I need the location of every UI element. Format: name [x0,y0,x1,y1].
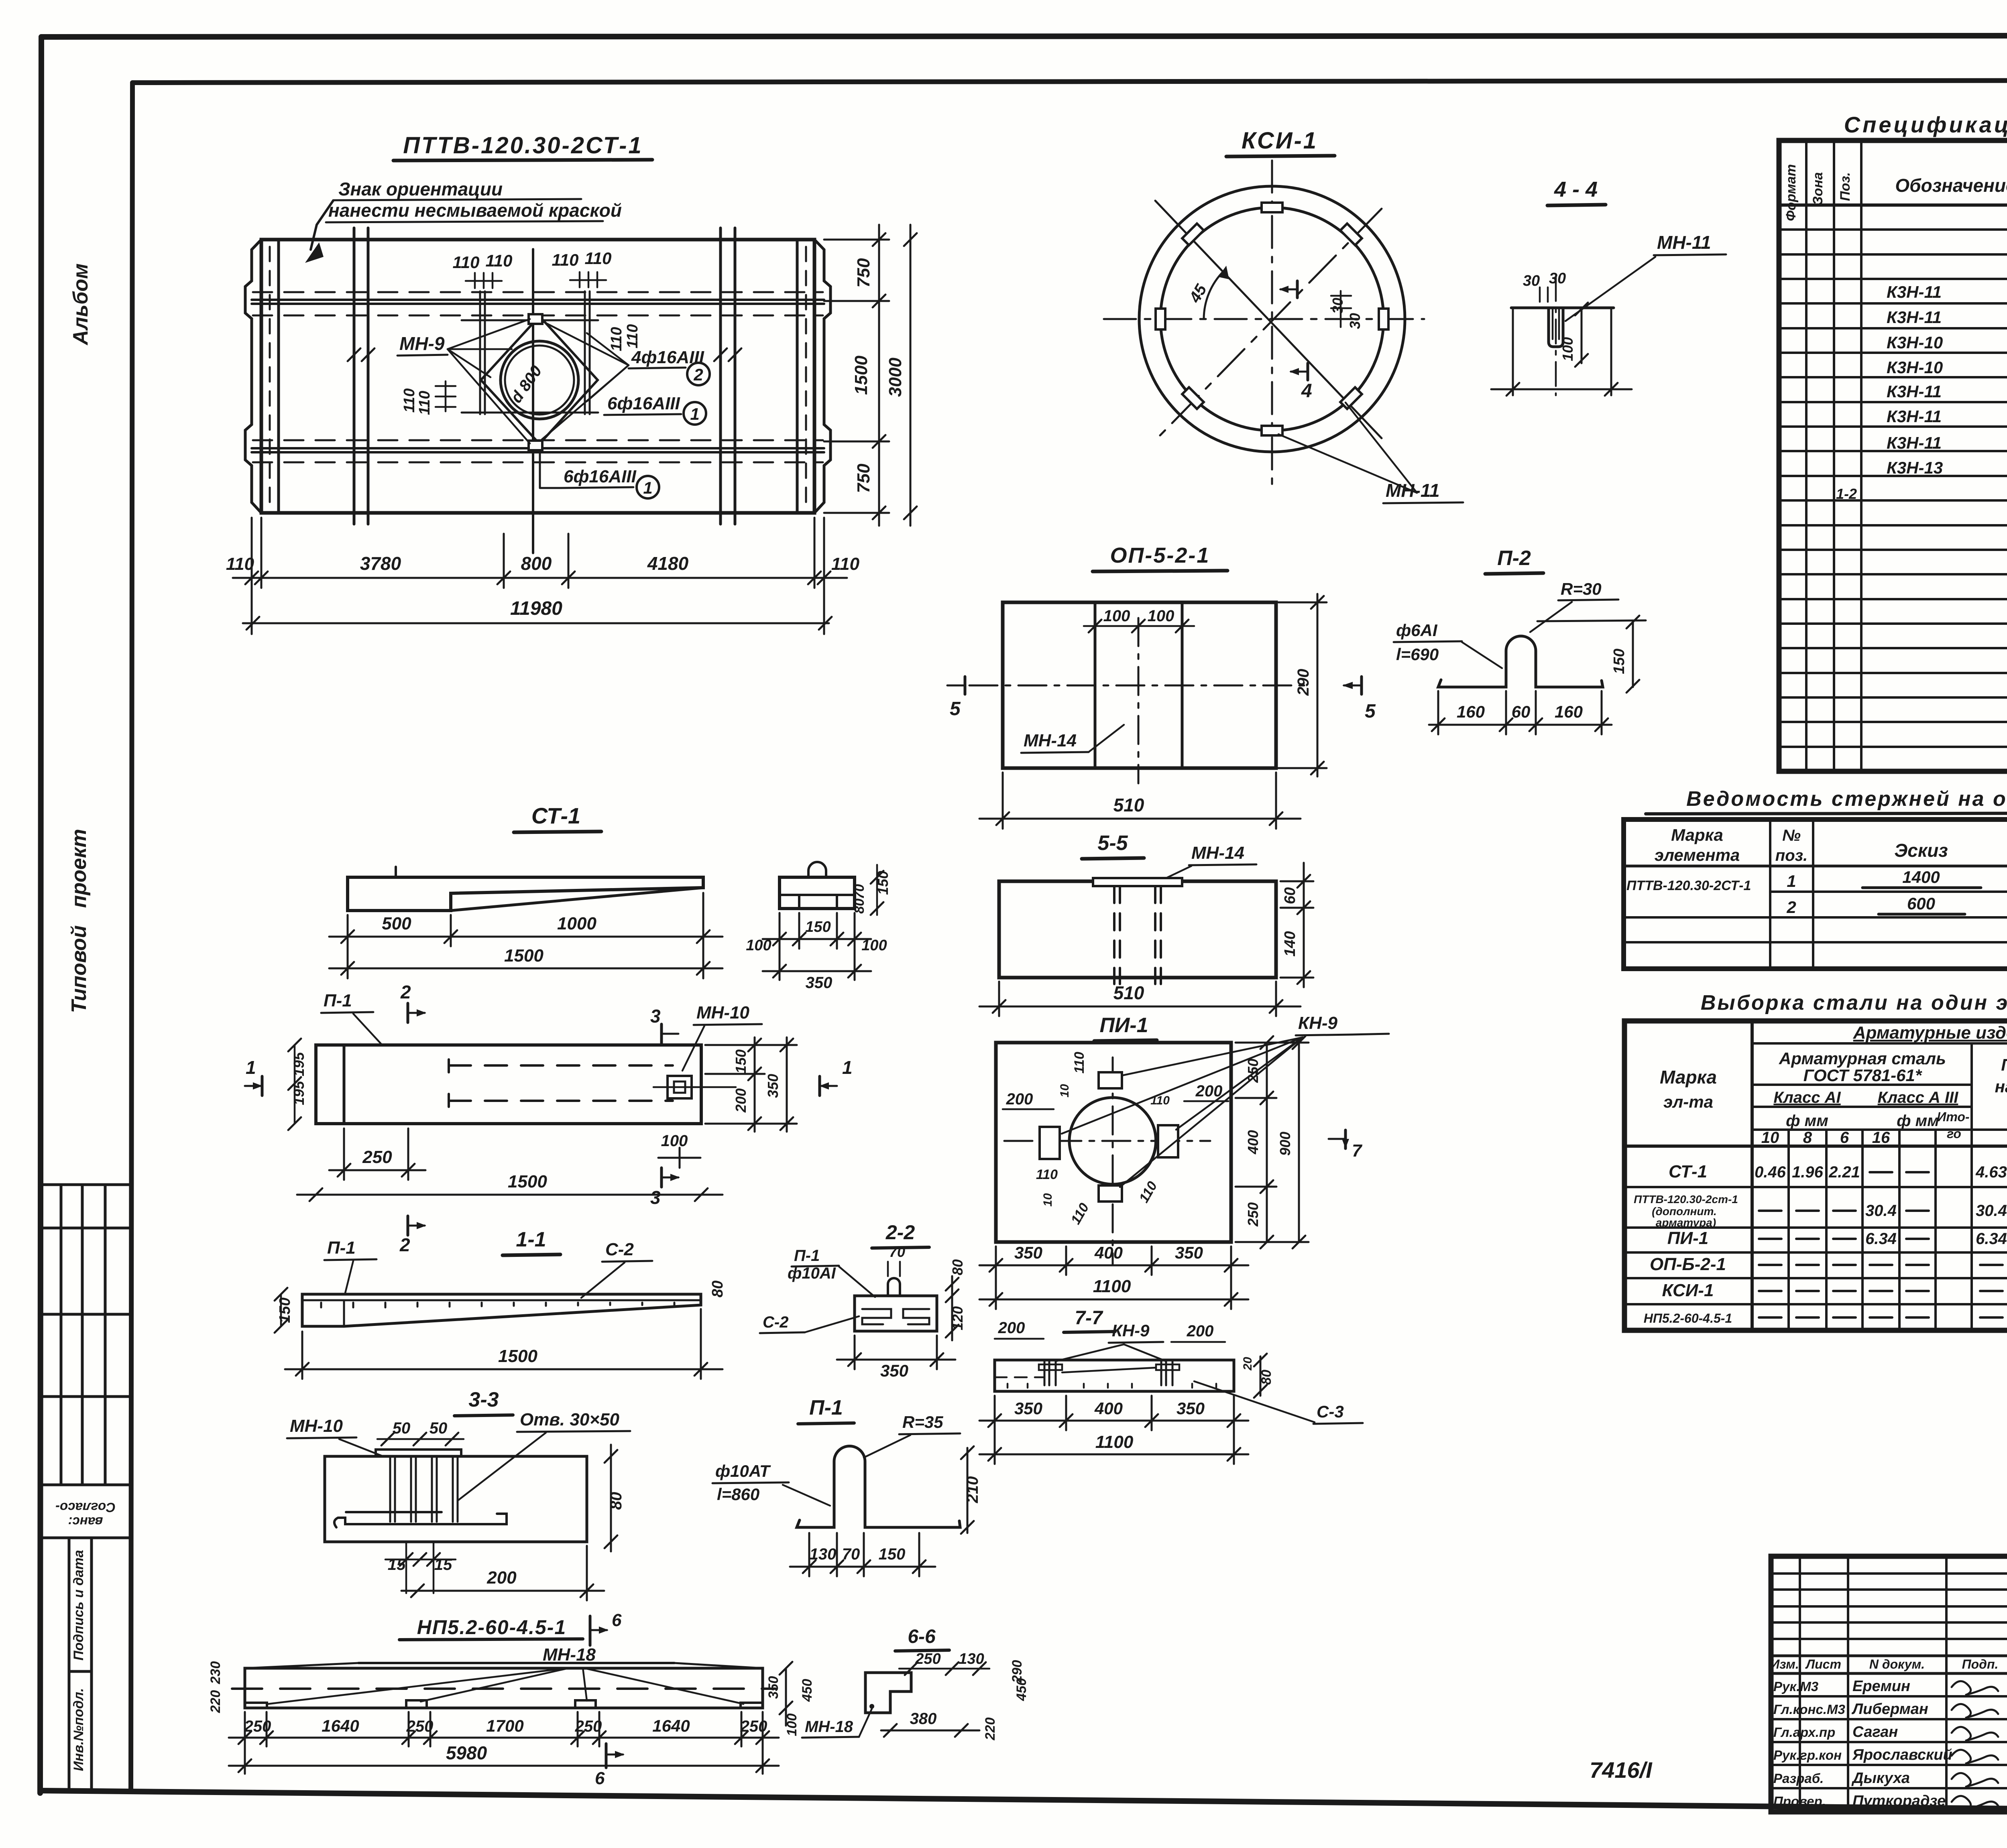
panel right vertical dim line 750 1500 750 [824,225,889,526]
svg-text:110: 110 [624,324,641,349]
svg-text:Класс АI: Класс АI [1773,1089,1841,1106]
svg-text:100: 100 [746,937,771,954]
П-2 hat profile [1438,636,1603,687]
svg-text:3-3: 3-3 [468,1388,499,1411]
КН-9 callout at 7-7 [1056,1321,1166,1361]
svg-text:5: 5 [1365,701,1376,722]
svg-text:КСИ-1: КСИ-1 [1662,1281,1714,1300]
svg-text:МН-14: МН-14 [1024,731,1077,750]
svg-text:СТ-1: СТ-1 [1669,1162,1707,1181]
svg-text:110: 110 [1068,1200,1092,1227]
svg-text:НП5.2-60-4.5-1: НП5.2-60-4.5-1 [417,1616,566,1639]
ОП bottom dim 510 [979,773,1301,829]
5-5 embedded plate МН-14 [1093,878,1182,886]
svg-text:R=35: R=35 [902,1413,943,1431]
svg-text:30.4: 30.4 [1976,1202,2007,1220]
svg-text:Обозначение: Обозначение [1895,175,2007,196]
panel body outline [261,240,814,513]
4-4 section title [1547,177,1606,205]
svg-text:К3Н-11: К3Н-11 [1887,407,1942,426]
svg-text:1500: 1500 [508,1172,547,1191]
section marker 1 right [819,1057,853,1096]
svg-text:ф мм: ф мм [1786,1112,1828,1130]
svg-text:100: 100 [1103,607,1130,625]
svg-text:1500: 1500 [504,946,543,966]
svg-text:4: 4 [1301,380,1312,402]
П-1 detail title [798,1396,854,1424]
svg-text:Рук.М3: Рук.М3 [1773,1679,1818,1694]
svg-text:380: 380 [910,1710,937,1728]
svg-text:Альбом: Альбом [69,263,92,346]
svg-text:500: 500 [382,914,411,933]
svg-text:Саган: Саган [1852,1724,1898,1740]
svg-text:100: 100 [861,937,887,954]
svg-text:1-1: 1-1 [516,1228,546,1251]
7-7 dims 200 200 [995,1319,1225,1342]
svg-text:1: 1 [643,478,652,497]
ОП-5-2-1 plan rect [1003,602,1276,768]
svg-text:230: 230 [208,1661,223,1685]
svg-text:Ярославский: Ярославский [1852,1746,1952,1763]
svg-text:1100: 1100 [1093,1277,1131,1296]
rebar callout 6ф16АІІІ with circle 1 [604,394,706,425]
svg-text:Зона: Зона [1810,172,1826,205]
svg-text:R=30: R=30 [1561,579,1602,598]
svg-text:220: 220 [208,1690,223,1714]
svg-text:210: 210 [964,1476,981,1504]
svg-text:110: 110 [453,253,480,272]
dim 30 30 inside ring [1329,291,1363,329]
svg-text:1640: 1640 [322,1716,359,1735]
svg-text:110: 110 [1036,1167,1058,1182]
svg-text:750: 750 [854,258,873,288]
svg-text:l=860: l=860 [717,1485,759,1504]
svg-text:6: 6 [595,1769,605,1788]
svg-text:70: 70 [842,1545,860,1563]
svg-text:110: 110 [552,250,579,269]
svg-text:Подп.: Подп. [1962,1657,1999,1671]
svg-text:900: 900 [1277,1132,1293,1156]
svg-text:60: 60 [1282,887,1299,904]
panel bottom dim line 110 3780 800 4180 110 [233,518,847,634]
КСИ-1 ring inner circle [1160,207,1384,431]
svg-text:ф10АI: ф10АI [788,1265,836,1282]
svg-text:арматура): арматура) [1656,1216,1716,1229]
svg-text:20: 20 [1241,1357,1254,1371]
rotated dims 110 110 left lower [401,381,456,415]
МН-11 plates on ring [1156,203,1388,435]
НП dims 250 1640 250 1700 250 1640 250 [229,1712,779,1774]
svg-text:К3Н-10: К3Н-10 [1887,333,1943,352]
svg-text:250: 250 [406,1718,434,1735]
svg-text:К3Н-10: К3Н-10 [1887,358,1943,377]
svg-text:1: 1 [690,405,699,423]
svg-text:КН-9: КН-9 [1112,1321,1150,1340]
45 degree arc marker [1186,266,1229,319]
plan embedded square МН-10 [653,1076,736,1098]
svg-text:30: 30 [1549,270,1566,287]
svg-text:1: 1 [1787,872,1796,890]
svg-text:ОП-Б-2-1: ОП-Б-2-1 [1650,1254,1726,1274]
3-3 anchor prongs [390,1456,458,1522]
panel left flange profile [245,240,279,513]
svg-text:16: 16 [1872,1129,1890,1147]
svg-text:N докум.: N докум. [1869,1657,1925,1671]
dim 110 110 top right of opening [552,249,612,287]
svg-text:Отв. 30×50: Отв. 30×50 [520,1410,619,1429]
sidebar box Подпись и дата / Инв N подл [69,1538,131,1792]
plan dim 100 right [658,1148,700,1168]
svg-text:80: 80 [607,1492,625,1510]
svg-text:го: го [1947,1126,1961,1141]
svg-text:Путкорадзе: Путкорадзе [1852,1793,1946,1809]
svg-text:100: 100 [1559,337,1576,361]
svg-text:1100: 1100 [1095,1432,1134,1452]
СТ-1 side view body [348,867,703,911]
ПИ-1 right dims 250 400 250 900 [1236,1036,1309,1248]
svg-text:6.34: 6.34 [1865,1230,1897,1248]
svg-text:МН-11: МН-11 [1657,232,1711,253]
7-7 right dims 80 20 [1254,1354,1267,1398]
rebar pins near opening [462,291,598,414]
section marker 3 upper [650,1006,678,1043]
svg-text:ванс:: ванс: [68,1515,103,1529]
sidebar stamp grid [40,1185,131,1485]
svg-text:П-1: П-1 [794,1247,820,1265]
2-2 right dims 80 120 [946,1276,959,1340]
С-3 callout at 7-7 [1194,1381,1363,1424]
svg-text:140: 140 [1282,931,1299,956]
НП dim 5980 [229,1759,779,1772]
svg-text:7: 7 [1352,1141,1363,1161]
svg-text:120: 120 [949,1306,966,1330]
П-1 dims 130 70 150 210 [790,1533,935,1576]
svg-text:МН-18: МН-18 [543,1645,596,1665]
ПИ-1 title [1094,1014,1157,1041]
svg-text:Спецификация элементов сборной: Спецификация элементов сборной конструкц… [1844,112,2007,137]
svg-text:3: 3 [650,1187,661,1208]
ф6АІ l=690 callout [1394,621,1502,668]
panel centre axis vertical [532,249,534,553]
svg-text:Ито-: Ито- [1937,1110,1969,1124]
plan right dims 150 200 350 [705,1037,797,1132]
panel overall dim 11980 [243,617,832,630]
3-3 block [325,1450,587,1542]
7-7 bottom dims 350 400 350 1100 [979,1396,1248,1464]
6-6 L-shaped section [865,1673,911,1713]
svg-text:П-1: П-1 [327,1238,356,1258]
svg-text:Гл.арх.пр: Гл.арх.пр [1773,1725,1835,1740]
svg-text:30: 30 [1347,313,1363,329]
svg-text:ПИ-1: ПИ-1 [1099,1014,1148,1037]
МН-11 label with leaders [1278,403,1463,503]
svg-text:400: 400 [1245,1130,1261,1155]
svg-text:3780: 3780 [360,553,401,574]
svg-text:250: 250 [362,1147,392,1167]
svg-text:2: 2 [1786,898,1796,917]
title block grid [1771,1556,2007,1812]
МН-11 callout at 4-4 [1565,232,1726,321]
svg-text:195: 195 [291,1052,307,1076]
ОП-5-2-1 title [1093,543,1227,571]
section marker 5 right [1342,677,1376,722]
svg-text:1: 1 [246,1057,256,1078]
svg-text:ф мм: ф мм [1897,1112,1939,1130]
svg-text:4.63: 4.63 [1975,1163,2007,1181]
П-1 callout at 1-1 [324,1238,377,1293]
svg-text:250: 250 [915,1651,940,1667]
6-6 dims 250 130 above [899,1651,989,1675]
svg-text:200: 200 [1006,1090,1033,1108]
svg-text:30.4: 30.4 [1865,1202,1897,1220]
svg-text:К3Н-11: К3Н-11 [1887,382,1942,401]
svg-text:1500: 1500 [851,356,871,395]
plan dim 250 [329,1128,425,1180]
svg-text:250: 250 [1245,1059,1261,1083]
svg-text:Ведомость стержней на один: Ведомость стержней на один элемент [1686,787,2007,811]
svg-text:200: 200 [486,1568,517,1588]
4-4 dim 100 and frame [1491,303,1632,396]
МН-18 callout at 6-6 [802,1709,872,1738]
svg-text:Подпись и дата: Подпись и дата [71,1550,86,1661]
svg-text:110: 110 [831,554,860,574]
svg-text:Дыкуха: Дыкуха [1851,1770,1910,1787]
svg-text:150: 150 [1611,649,1628,674]
svg-text:11980: 11980 [510,598,562,619]
svg-text:80: 80 [852,899,867,914]
3-3 detail title [454,1388,513,1416]
svg-text:4180: 4180 [647,553,689,574]
svg-text:1000: 1000 [557,914,596,933]
svg-text:1700: 1700 [486,1716,523,1735]
svg-text:130: 130 [810,1545,837,1563]
svg-text:ф6АI: ф6АI [1396,621,1438,640]
svg-text:МН-9: МН-9 [399,333,445,354]
section marker 2 upper [400,982,426,1023]
7-7 element body [995,1360,1234,1391]
rotated dims 110 110 mid right [608,324,641,352]
svg-text:нанести несмываемой краской: нанести несмываемой краской [328,200,622,221]
R=35 callout [864,1413,960,1458]
section marker 7 [1329,1130,1363,1161]
1-1 wedge body [302,1294,701,1326]
plan dim 1500 [297,1188,723,1201]
4-4 section drawing [1511,308,1614,347]
П-2 dims 160 60 160 [1429,691,1612,734]
svg-text:ф10АТ: ф10АТ [715,1462,771,1480]
svg-text:№: № [1782,827,1801,844]
embedded plate МН-9 bottom [529,441,542,450]
svg-text:150: 150 [733,1049,749,1073]
Отв 30х50 callout [458,1410,630,1500]
СТ-1 title [514,803,601,832]
5-5 section body [999,881,1276,978]
СТ-1 end view dims [852,865,891,915]
specification rows content [1836,212,2007,740]
НП right rotated dims 350 450 100 [780,1662,792,1726]
svg-text:800: 800 [521,553,552,574]
svg-text:элемента: элемента [1655,846,1740,864]
Ведомость table grid [1624,819,2007,969]
svg-text:10: 10 [1761,1129,1779,1147]
dim 100 100 [1084,607,1194,632]
svg-text:100: 100 [1148,607,1174,625]
ОП right dim 290 [1278,594,1327,777]
embedded plate МН-9 top [529,314,542,324]
КН-9 callout at ПИ-1 [1296,1013,1389,1035]
svg-text:Гл.конс.М3: Гл.конс.М3 [1773,1702,1845,1717]
section marker 3 lower [650,1168,680,1208]
svg-text:Разраб.: Разраб. [1773,1771,1824,1786]
2-2 block with loop [855,1278,937,1331]
1-1 rebar dots [321,1303,674,1307]
svg-text:поз.: поз. [1775,847,1808,864]
svg-text:250: 250 [575,1718,602,1735]
7-7 section title [1064,1307,1115,1332]
svg-text:110: 110 [401,388,418,413]
svg-text:ная сталь: ная сталь [1995,1077,2007,1096]
section marker 1 left [245,1057,263,1096]
svg-text:С-3: С-3 [1317,1402,1344,1421]
svg-text:350: 350 [1177,1399,1205,1418]
svg-text:МН-10: МН-10 [290,1416,343,1436]
svg-text:80: 80 [709,1281,726,1297]
svg-text:3000: 3000 [885,358,905,397]
svg-text:250: 250 [740,1718,767,1735]
2-2 С-2 mesh inside [862,1309,929,1324]
svg-text:СТ-1: СТ-1 [531,803,580,828]
7-7 rebar dots [995,1368,1216,1388]
svg-text:0.46: 0.46 [1755,1163,1786,1181]
svg-text:Согласо-: Согласо- [55,1500,116,1515]
svg-text:6: 6 [1840,1129,1849,1147]
2-2 detail title [872,1221,929,1248]
section marker 4 lower with label [1289,363,1312,402]
svg-text:5980: 5980 [446,1742,487,1763]
ПИ-1 bottom dims 350 400 350 1100 [979,1246,1248,1309]
svg-text:750: 750 [854,464,873,493]
svg-text:2: 2 [400,982,411,1002]
svg-text:450: 450 [800,1679,815,1702]
МН-14 callout at 5-5 [1156,843,1256,883]
panel lower rib band [252,440,824,462]
orientation arrow [305,201,333,263]
svg-text:2: 2 [693,365,703,384]
svg-text:350: 350 [1014,1243,1042,1262]
ПИ-1 small dims [1003,1052,1228,1227]
section marker 2 lower [399,1216,426,1255]
svg-text:8: 8 [1803,1129,1812,1147]
svg-text:220: 220 [983,1718,998,1741]
svg-text:70: 70 [889,1244,905,1260]
svg-text:Поз.: Поз. [1838,172,1853,201]
svg-text:510: 510 [1113,795,1144,815]
svg-text:7416/I: 7416/I [1590,1757,1653,1783]
svg-text:510: 510 [1113,982,1144,1003]
svg-text:Инв.№подл.: Инв.№подл. [71,1688,86,1771]
svg-text:ПТТВ-120.30-2СТ-1: ПТТВ-120.30-2СТ-1 [1626,878,1751,893]
svg-text:10: 10 [1058,1084,1071,1098]
svg-text:d 800: d 800 [507,362,546,406]
svg-text:Рук.гр.кон: Рук.гр.кон [1773,1748,1842,1763]
svg-text:К3Н-11: К3Н-11 [1887,308,1942,327]
svg-text:80: 80 [1259,1370,1274,1385]
svg-text:350: 350 [765,1074,781,1098]
svg-text:1-2: 1-2 [1836,486,1857,502]
rebar callout 6ф16АІІІ lower with circle 1 [540,453,659,498]
МН-18 leader lines [268,1668,743,1704]
5-5 section title [1082,831,1144,859]
rebar callout 4ф16АІІІ with circle 2 [542,321,710,439]
2-2 dim 70 [888,1244,905,1276]
МН-9 label and leaders [397,319,530,443]
svg-text:4 - 4: 4 - 4 [1554,177,1598,201]
7-7 anchors [1039,1360,1179,1385]
svg-text:350: 350 [880,1361,908,1380]
svg-text:110: 110 [486,251,513,270]
svg-text:1: 1 [842,1057,853,1078]
5-5 anchor bars dashed [1114,886,1161,984]
МН-18 label [543,1645,596,1665]
КН-9 leader fan [1062,1037,1303,1187]
plan left rotated dims 195 195 [288,1039,307,1130]
svg-text:Арматурная сталь: Арматурная сталь [1779,1049,1946,1068]
rhombus reinforcement around opening [481,316,598,444]
svg-text:110: 110 [1150,1094,1170,1107]
ПИ-1 opening circle [1069,1098,1156,1184]
СТ-1 end view [780,862,855,909]
svg-text:l=690: l=690 [1396,645,1439,664]
svg-text:350: 350 [806,974,833,992]
КСИ-1 centre axes [1104,161,1424,493]
section marker 4 upper [1279,281,1297,298]
2-2 dim 350 [837,1336,955,1369]
svg-text:К3Н-13: К3Н-13 [1887,458,1943,477]
НП element body [245,1663,763,1708]
svg-text:110: 110 [226,554,254,574]
svg-text:160: 160 [1457,702,1485,721]
svg-text:Провер.: Провер. [1773,1794,1826,1809]
svg-text:5-5: 5-5 [1097,831,1128,855]
svg-text:6.34: 6.34 [1976,1230,2007,1248]
6-6 dim 380 [881,1724,979,1737]
svg-text:К3Н-11: К3Н-11 [1887,283,1942,301]
КСИ-1 ring outer circle [1139,186,1405,452]
svg-text:130: 130 [959,1651,984,1667]
3-3 hooked bars [334,1512,507,1527]
svg-text:Профиль-: Профиль- [2001,1055,2007,1074]
panel transverse rib lines left pair [348,228,375,524]
МН-10 callout [682,1003,762,1071]
svg-text:350: 350 [766,1676,781,1699]
svg-text:50: 50 [429,1419,448,1437]
svg-text:КН-9: КН-9 [1298,1013,1337,1033]
svg-text:Изм.: Изм. [1770,1657,1799,1671]
НП5.2-60-4.5-1 title [399,1616,583,1640]
svg-text:Выборка стали на один элемент,: Выборка стали на один элемент, кг [1701,991,2007,1014]
panel upper rib band [252,292,824,315]
svg-text:350: 350 [1175,1243,1203,1262]
svg-text:10: 10 [1041,1193,1054,1207]
svg-text:60: 60 [1512,702,1531,721]
svg-text:6-6: 6-6 [908,1626,936,1647]
svg-text:110: 110 [1136,1179,1160,1205]
svg-text:150: 150 [277,1297,293,1323]
svg-text:400: 400 [1094,1243,1123,1262]
МН-9 plates in ПИ-1 [1040,1072,1178,1202]
П-1 callout upper [321,991,382,1045]
svg-text:110: 110 [585,249,612,268]
